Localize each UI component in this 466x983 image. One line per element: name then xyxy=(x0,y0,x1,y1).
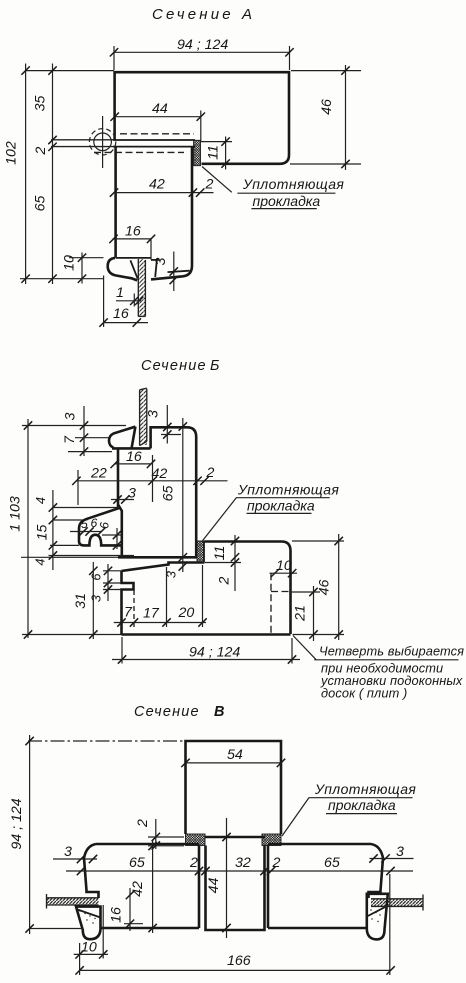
mullion bottom edge between gaskets xyxy=(205,836,265,839)
dimension 94;124 left column (В) xyxy=(9,735,83,934)
left frame box В xyxy=(84,844,199,928)
svg-text:3: 3 xyxy=(89,595,104,602)
drip cap Б slant edge xyxy=(132,427,136,449)
dimension 3 right (В) xyxy=(369,844,413,863)
svg-text:44: 44 xyxy=(152,101,168,117)
left extension of sash bottom xyxy=(21,556,118,558)
dimension 7 / 17 / 20 xyxy=(114,565,207,627)
svg-text:15: 15 xyxy=(35,525,51,541)
drip cap В left xyxy=(76,907,101,940)
small dimensions 5 6 6 at bead xyxy=(70,516,122,550)
dimension 31 xyxy=(73,562,98,639)
svg-text:21: 21 xyxy=(293,605,309,622)
svg-text:42: 42 xyxy=(152,466,168,482)
svg-text:Сечение: Сечение xyxy=(152,6,234,23)
svg-text:11: 11 xyxy=(206,145,222,160)
svg-text:20: 20 xyxy=(178,605,195,621)
svg-text:2: 2 xyxy=(217,576,233,585)
dimension 2 center-left (В) xyxy=(135,819,184,850)
apron strip A (hatched) xyxy=(138,259,145,316)
dimension 94;124 top xyxy=(110,37,294,70)
svg-text:31: 31 xyxy=(73,593,89,609)
svg-text:22: 22 xyxy=(90,466,107,482)
svg-text:46: 46 xyxy=(319,99,335,115)
svg-text:46: 46 xyxy=(317,580,333,596)
svg-text:2: 2 xyxy=(206,465,215,481)
apron strip Б (hatched, from above) xyxy=(140,388,147,445)
frame head profile (top box) xyxy=(115,72,289,164)
dimension 22 / 42 / 2 (Б) xyxy=(72,455,227,505)
svg-text:1 103: 1 103 xyxy=(8,496,24,532)
svg-text:6: 6 xyxy=(98,522,112,529)
dimension 42 (В) xyxy=(130,840,157,933)
dimension 3 top-right (Б) xyxy=(146,405,182,444)
dashed sash lines xyxy=(120,133,194,135)
sash top and right edge xyxy=(151,427,197,557)
svg-text:4: 4 xyxy=(33,558,48,565)
svg-text:10: 10 xyxy=(276,558,292,574)
extension sash top to left xyxy=(22,425,126,427)
svg-text:44: 44 xyxy=(206,878,222,894)
svg-text:Сечение: Сечение xyxy=(134,704,200,720)
svg-text:7: 7 xyxy=(124,605,133,621)
dimension 44 xyxy=(206,818,231,938)
dimension 3 left (В) xyxy=(53,844,97,863)
dimension 3 / 7 top-left xyxy=(62,406,112,456)
gasket right edge / step xyxy=(203,542,205,563)
dimension 35 / 2 / 65 inner column xyxy=(33,64,57,285)
drip cap В right xyxy=(367,894,388,940)
svg-text:Сечение: Сечение xyxy=(141,358,207,374)
dimension 16 bottom xyxy=(99,276,148,328)
svg-text:42: 42 xyxy=(149,177,165,193)
svg-text:2: 2 xyxy=(189,855,198,871)
svg-text:11: 11 xyxy=(212,546,228,561)
svg-text:прокладка: прокладка xyxy=(247,498,315,514)
svg-text:94 ; 124: 94 ; 124 xyxy=(177,37,228,53)
frame box Б right part xyxy=(204,542,290,635)
bead profile (наплав) xyxy=(79,505,122,546)
sill strip left (hatched) xyxy=(47,894,99,909)
leader gasket A xyxy=(202,167,344,210)
sash shoulder bottom xyxy=(112,447,151,450)
dimension 102 outer column xyxy=(4,64,30,285)
svg-text:166: 166 xyxy=(227,953,251,969)
gasket В left xyxy=(186,834,206,846)
dimension 16 (В) xyxy=(109,888,144,931)
drip cap slant xyxy=(130,260,137,278)
right frame box В xyxy=(268,844,383,928)
svg-text:Уплотняющая: Уплотняющая xyxy=(314,781,416,797)
svg-text:102: 102 xyxy=(4,141,20,165)
svg-text:54: 54 xyxy=(227,747,243,763)
svg-text:42: 42 xyxy=(130,881,146,897)
dimension 16 (Б) xyxy=(111,449,156,468)
svg-text:17: 17 xyxy=(143,606,160,622)
svg-text:3: 3 xyxy=(63,412,79,420)
dash-dot extension to left xyxy=(28,740,184,742)
dimension 3 lower right xyxy=(153,252,178,292)
gasket Б xyxy=(197,541,204,563)
bottom extension line xyxy=(20,278,104,280)
dimension 6 / 3 slot left xyxy=(89,564,122,602)
dimension band 65 2 32 2 65 xyxy=(66,855,413,875)
drip cap Б xyxy=(109,427,135,448)
svg-text:2: 2 xyxy=(33,146,49,155)
dimension 65 (Б) xyxy=(161,418,188,578)
svg-text:В: В xyxy=(214,704,224,720)
stipple dots right cap xyxy=(370,909,380,922)
svg-text:Уплотняющая: Уплотняющая xyxy=(237,482,339,498)
bottom extension left xyxy=(22,634,122,636)
sash left edge below bead xyxy=(121,545,124,557)
svg-text:16: 16 xyxy=(126,449,142,465)
dimension 21 xyxy=(290,586,320,641)
frame box Б left edge with slot xyxy=(122,571,134,635)
leader gasket Б xyxy=(202,482,340,543)
sash bottom xyxy=(118,556,197,559)
svg-text:прокладка: прокладка xyxy=(328,797,396,813)
svg-text:2: 2 xyxy=(205,177,214,193)
svg-text:2: 2 xyxy=(135,819,151,828)
svg-text:35: 35 xyxy=(33,96,49,112)
svg-text:94 ; 124: 94 ; 124 xyxy=(9,798,25,849)
svg-text:прокладка: прокладка xyxy=(253,193,321,209)
svg-text:3: 3 xyxy=(64,844,72,860)
svg-text:65: 65 xyxy=(324,855,340,871)
sash left edge xyxy=(117,448,120,507)
dimension 10 (Б) xyxy=(270,558,298,577)
svg-text:32: 32 xyxy=(235,855,251,871)
svg-text:65: 65 xyxy=(33,196,49,212)
dimension 4 / 15 / 4 left xyxy=(33,490,135,570)
svg-text:16: 16 xyxy=(113,306,129,322)
dimension 11 xyxy=(201,137,232,170)
svg-text:Четверть выбирается: Четверть выбирается xyxy=(319,644,464,659)
sill strip right (hatched) xyxy=(371,895,423,911)
dimension 94;124 (Б) xyxy=(112,637,300,664)
svg-text:3: 3 xyxy=(153,257,169,265)
svg-text:65: 65 xyxy=(129,855,145,871)
svg-text:Б: Б xyxy=(210,358,219,374)
dimension 54 xyxy=(181,747,285,767)
hinge strap lines xyxy=(51,140,195,147)
left extension line top xyxy=(25,70,114,72)
svg-text:16: 16 xyxy=(125,224,141,240)
dimension 16 upper xyxy=(109,224,155,260)
groove hook xyxy=(151,259,160,261)
dimension 44 xyxy=(111,101,206,141)
svg-text:2: 2 xyxy=(272,855,281,871)
frame sill box right edge with lip xyxy=(151,147,192,280)
dimension 46 (Б) xyxy=(292,534,344,640)
frame box Б bottom xyxy=(122,633,291,636)
frame sill box (lower) left edge xyxy=(114,147,117,258)
stipple dots left cap xyxy=(79,910,95,923)
hinge circles xyxy=(89,116,115,168)
svg-text:10: 10 xyxy=(81,940,97,956)
svg-text:4: 4 xyxy=(33,497,48,504)
dimension 10 xyxy=(62,253,104,284)
svg-text:3: 3 xyxy=(146,410,162,418)
svg-text:3: 3 xyxy=(396,844,404,860)
svg-text:94 ; 124: 94 ; 124 xyxy=(189,645,240,661)
dimension 42 / 2 xyxy=(110,177,214,197)
box bottom closing line xyxy=(116,257,151,259)
svg-text:1: 1 xyxy=(116,285,124,301)
svg-text:А: А xyxy=(241,6,252,23)
svg-text:7: 7 xyxy=(62,435,78,444)
svg-text:досок ( плит ): досок ( плит ) xyxy=(321,686,407,701)
rebate dashed (четверть) xyxy=(271,573,290,633)
dimension 11 / 2 right (Б) xyxy=(205,535,241,591)
gasket В right xyxy=(262,834,281,846)
dimension 3 mid-left (Б) xyxy=(111,486,136,504)
svg-text:3: 3 xyxy=(164,571,179,578)
svg-text:16: 16 xyxy=(109,907,125,923)
dimension 1 xyxy=(116,285,143,307)
frame box Б top-left slant xyxy=(121,563,204,572)
dimension column 1 103 xyxy=(8,419,33,639)
dimension 46 right xyxy=(290,65,361,170)
gasket A (уплотняющая прокладка) xyxy=(194,140,201,165)
svg-text:65: 65 xyxy=(161,486,177,502)
svg-text:Уплотняющая: Уплотняющая xyxy=(242,176,344,192)
dimension 10 (В) xyxy=(74,905,108,959)
mullion head box xyxy=(186,741,282,834)
dimension 166 xyxy=(75,874,394,975)
drip cap A xyxy=(108,258,138,281)
svg-text:10: 10 xyxy=(62,255,78,271)
leader gasket В xyxy=(282,781,416,836)
leader четверть note xyxy=(293,636,464,701)
lip inner line xyxy=(168,271,190,272)
mullion lower part xyxy=(206,846,265,931)
